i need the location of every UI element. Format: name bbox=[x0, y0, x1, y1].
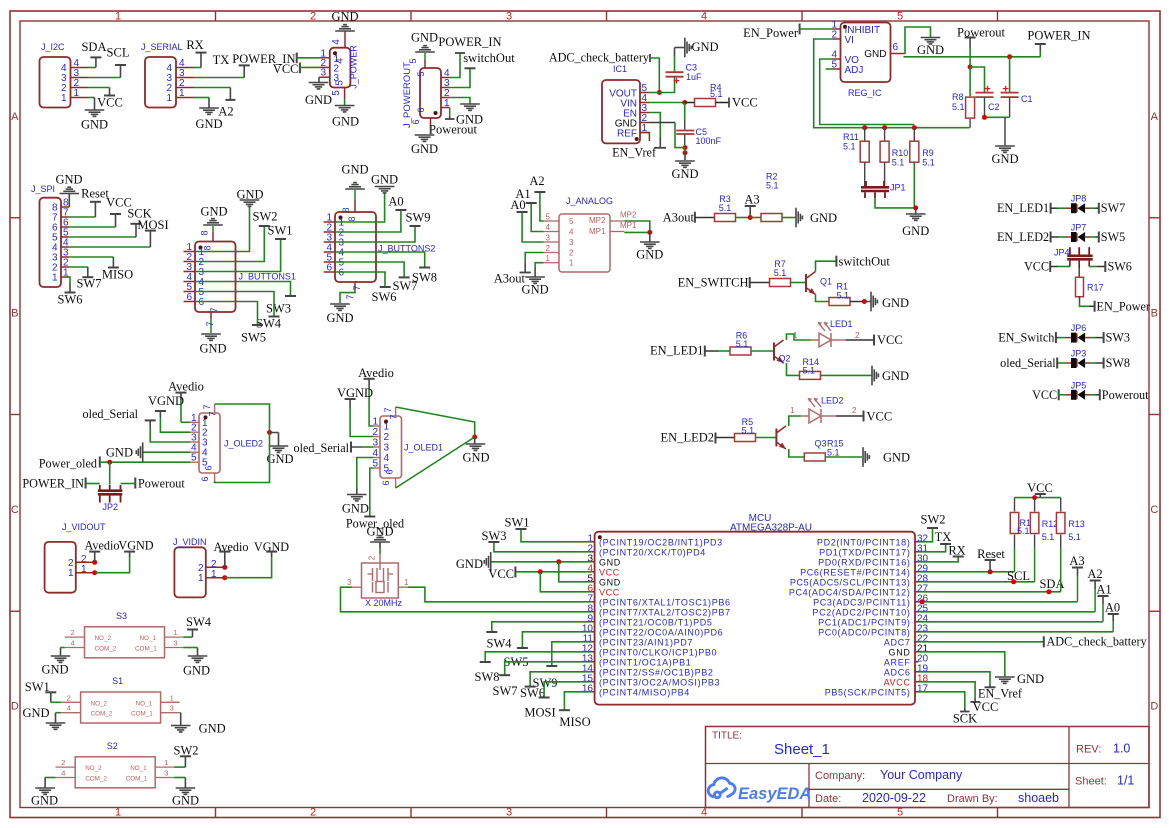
net label SW5 at MCU pin10 bbox=[522, 632, 591, 648]
svg-text:B: B bbox=[1151, 308, 1158, 320]
svg-text:POWER_IN: POWER_IN bbox=[22, 477, 84, 491]
svg-text:SW4: SW4 bbox=[487, 637, 513, 651]
LED1 bbox=[819, 333, 831, 347]
svg-text:VCC: VCC bbox=[599, 568, 620, 578]
wire Q1 collector to switchOut bbox=[816, 261, 837, 271]
net label A1 at MCU pin24 bbox=[919, 621, 1104, 623]
svg-text:PC3(ADC3/PCINT11): PC3(ADC3/PCINT11) bbox=[813, 598, 910, 608]
svg-text:ADC_check_battery: ADC_check_battery bbox=[1047, 635, 1148, 649]
svg-text:1: 1 bbox=[198, 573, 204, 584]
svg-text:A2: A2 bbox=[529, 174, 544, 188]
MCU ATMEGA328P-AU bbox=[595, 532, 915, 705]
svg-text:Powerout: Powerout bbox=[429, 123, 477, 137]
wire REG_IC pin6 up to GND bbox=[904, 27, 931, 54]
svg-text:6: 6 bbox=[385, 469, 395, 474]
svg-text:1: 1 bbox=[793, 331, 798, 340]
ground below J_BUTTONS2 bbox=[354, 282, 356, 290]
jumper JP2 bbox=[109, 462, 111, 484]
net label RX at MCU pin30 bbox=[919, 557, 959, 562]
svg-text:1: 1 bbox=[179, 88, 185, 99]
net label SW3 at MCU pin2 bbox=[494, 542, 591, 552]
svg-text:ADC_check_battery: ADC_check_battery bbox=[549, 51, 650, 65]
wire Q2 collector to LED1 bbox=[787, 334, 812, 340]
svg-text:7: 7 bbox=[345, 294, 355, 299]
wire EN to EN_Vref flag bbox=[649, 113, 660, 138]
net label TX at MCU pin31 bbox=[919, 544, 946, 552]
net label EN_Vref at MCU pin19 bbox=[919, 672, 991, 684]
svg-text:R11: R11 bbox=[843, 132, 859, 142]
ground below JP1 bbox=[915, 208, 917, 214]
net label MISO at J_SPI pin3 bbox=[69, 256, 113, 258]
wire JP1 to gnd bbox=[875, 198, 916, 208]
net label SW6 at MCU pin14 bbox=[530, 672, 591, 687]
svg-text:5.1: 5.1 bbox=[922, 158, 935, 168]
ground at S1 pin3 bbox=[179, 712, 182, 714]
svg-text:switchOut: switchOut bbox=[463, 51, 515, 65]
svg-text:5: 5 bbox=[335, 80, 346, 86]
net label A2 into J_ANALOG pin5 bbox=[540, 192, 544, 221]
net label SCK at MCU pin17 bbox=[919, 692, 965, 708]
svg-text:6: 6 bbox=[411, 119, 421, 124]
gnd flag above J_BUTTONS1 top pin bbox=[212, 232, 214, 242]
svg-text:J_OLED2: J_OLED2 bbox=[224, 439, 263, 449]
svg-text:7: 7 bbox=[383, 407, 393, 412]
svg-text:2: 2 bbox=[198, 563, 204, 574]
ground at J_I2C pin1 bbox=[88, 97, 95, 99]
svg-text:EN_Vref: EN_Vref bbox=[978, 687, 1023, 701]
svg-text:VCC: VCC bbox=[867, 410, 893, 424]
svg-text:7: 7 bbox=[352, 285, 362, 290]
svg-text:JP6: JP6 bbox=[1071, 323, 1087, 333]
wire MCU pin29 to R16 with Reset label bbox=[919, 571, 1015, 573]
svg-text:JP7: JP7 bbox=[1071, 223, 1087, 233]
svg-text:JP4: JP4 bbox=[1054, 248, 1070, 258]
svg-text:GND: GND bbox=[31, 794, 58, 808]
svg-text:POWER_IN: POWER_IN bbox=[1027, 29, 1090, 43]
svg-text:5.1: 5.1 bbox=[710, 89, 723, 99]
svg-text:PB5(SCK/PCINT5): PB5(SCK/PCINT5) bbox=[825, 688, 911, 698]
svg-text:GND: GND bbox=[991, 152, 1018, 166]
wire Q1 emitter to R1 bbox=[816, 295, 830, 302]
svg-text:VCC: VCC bbox=[877, 333, 903, 347]
svg-text:A: A bbox=[1151, 111, 1159, 123]
svg-text:3: 3 bbox=[506, 11, 512, 23]
wire Q3 collector to LED2 bbox=[789, 416, 801, 426]
svg-text:GND: GND bbox=[106, 446, 133, 460]
wire IC1 GND pin to C5 junction bbox=[649, 122, 675, 124]
svg-text:Q2: Q2 bbox=[779, 354, 791, 364]
ground at S2 pin3 bbox=[174, 777, 185, 779]
svg-text:PC2(ADC2/PCINT10): PC2(ADC2/PCINT10) bbox=[812, 608, 910, 618]
junction below C2 and gnd bbox=[985, 116, 1010, 118]
ground at J_OLED1 triangle bbox=[474, 437, 476, 444]
svg-text:GND: GND bbox=[55, 173, 82, 187]
resistor R3 5.1 bbox=[715, 214, 736, 222]
net label SW7 at MCU pin13 bbox=[505, 662, 592, 675]
svg-text:JP1: JP1 bbox=[890, 183, 906, 193]
resistor R1 5.1 bbox=[829, 298, 850, 306]
svg-text:1: 1 bbox=[546, 254, 551, 263]
svg-text:5.1: 5.1 bbox=[827, 448, 840, 458]
svg-text:REG_IC: REG_IC bbox=[848, 88, 882, 98]
svg-text:4: 4 bbox=[701, 807, 707, 819]
svg-text:EN_LED2: EN_LED2 bbox=[661, 431, 714, 445]
svg-text:C3: C3 bbox=[686, 63, 698, 73]
svg-text:GND: GND bbox=[371, 173, 398, 187]
ground at S1 pin4 bbox=[56, 712, 61, 714]
svg-text:5.1: 5.1 bbox=[1068, 532, 1081, 542]
VCC rail wire bbox=[1015, 497, 1061, 499]
net label SW3 from J_BUTTONS1 row4 bbox=[195, 282, 291, 297]
transistor Q1 bbox=[805, 274, 807, 292]
connector J_ANALOG bbox=[559, 214, 610, 272]
svg-text:1.0: 1.0 bbox=[1113, 742, 1130, 756]
svg-text:GND: GND bbox=[81, 118, 108, 132]
feedback wires from REG_IC VO/ADJ bbox=[814, 39, 970, 128]
svg-text:MP2: MP2 bbox=[620, 211, 637, 220]
svg-text:EN_LED2: EN_LED2 bbox=[997, 230, 1049, 244]
svg-text:MP1: MP1 bbox=[620, 221, 637, 230]
capacitor C2 bbox=[970, 67, 984, 93]
svg-text:GND: GND bbox=[456, 557, 483, 571]
svg-text:oled_Serial: oled_Serial bbox=[1000, 356, 1056, 370]
svg-text:8: 8 bbox=[203, 245, 213, 250]
svg-text:Avedio: Avedio bbox=[168, 380, 204, 394]
net label SW7 from J_BUTTONS2 row5 bbox=[335, 262, 404, 277]
svg-text:2: 2 bbox=[855, 331, 860, 340]
title block bbox=[706, 727, 1150, 808]
svg-text:4: 4 bbox=[331, 39, 342, 45]
ground below J_POWER pin5 bbox=[344, 88, 346, 100]
wire J_OLED2 bottom pin loop bbox=[214, 473, 216, 481]
svg-text:SW6: SW6 bbox=[58, 293, 83, 307]
resistor R7 5.1 bbox=[770, 279, 791, 287]
svg-text:PD1(TXD/PCINT17): PD1(TXD/PCINT17) bbox=[819, 548, 910, 558]
svg-text:PD0(RXD/PCINT16): PD0(RXD/PCINT16) bbox=[818, 558, 910, 568]
svg-text:NO_2: NO_2 bbox=[91, 700, 108, 707]
transistor Q3 bbox=[775, 429, 777, 447]
svg-text:MP1: MP1 bbox=[589, 227, 606, 236]
svg-text:SW4: SW4 bbox=[256, 317, 282, 331]
svg-text:GND: GND bbox=[889, 648, 911, 658]
svg-text:5: 5 bbox=[408, 58, 418, 63]
net label A1 into J_ANALOG pin4 bbox=[531, 203, 543, 232]
svg-text:GND: GND bbox=[883, 451, 910, 465]
svg-text:1: 1 bbox=[174, 628, 178, 637]
svg-text:SW9: SW9 bbox=[406, 211, 431, 225]
svg-text:16: 16 bbox=[582, 683, 594, 694]
svg-text:5: 5 bbox=[416, 71, 426, 76]
svg-text:PC5(ADC5/SCL/PCINT13): PC5(ADC5/SCL/PCINT13) bbox=[790, 578, 911, 588]
svg-text:VCC: VCC bbox=[599, 588, 620, 598]
svg-text:GND: GND bbox=[411, 142, 438, 156]
resistor R2 5.1 bbox=[750, 217, 761, 219]
svg-text:SW6: SW6 bbox=[1108, 260, 1132, 274]
net label SW6 from J_BUTTONS2 row6 bbox=[335, 272, 385, 287]
connector J_I2C bbox=[40, 57, 71, 108]
svg-text:GND: GND bbox=[183, 664, 210, 678]
svg-text:1: 1 bbox=[81, 564, 87, 575]
svg-text:COM_2: COM_2 bbox=[85, 775, 107, 782]
svg-text:VGND: VGND bbox=[337, 386, 373, 400]
svg-text:COM_2: COM_2 bbox=[95, 645, 117, 652]
wire MCU pin28 to R12 with SCL label bbox=[919, 581, 1035, 583]
wire MCU pins 4 and 6 to VCC bbox=[515, 571, 591, 573]
net label SW5 from J_BUTTONS1 row6 bbox=[195, 302, 258, 326]
svg-text:SCL: SCL bbox=[1007, 569, 1030, 583]
net label ADC_check_battery at MCU pin22 bbox=[919, 641, 1044, 643]
svg-text:Date:: Date: bbox=[815, 793, 841, 805]
svg-text:2: 2 bbox=[67, 693, 71, 702]
svg-text:3: 3 bbox=[347, 578, 352, 587]
svg-text:2: 2 bbox=[310, 807, 316, 819]
svg-text:EN_Switch: EN_Switch bbox=[998, 331, 1054, 345]
net label A0 into J_ANALOG pin3 bbox=[522, 212, 543, 242]
svg-text:SW3: SW3 bbox=[482, 529, 507, 543]
svg-text:C1: C1 bbox=[1021, 94, 1033, 104]
svg-text:A2: A2 bbox=[1087, 567, 1102, 581]
svg-text:VGND: VGND bbox=[118, 539, 153, 553]
svg-text:1uF: 1uF bbox=[686, 72, 702, 82]
svg-text:MOSI: MOSI bbox=[137, 218, 168, 232]
connector J_OLED2 bbox=[199, 413, 220, 473]
net label MOSI at J_SPI pin4 bbox=[69, 246, 150, 248]
svg-text:1: 1 bbox=[52, 273, 58, 284]
svg-text:R13: R13 bbox=[1068, 519, 1085, 529]
svg-text:A: A bbox=[11, 111, 19, 123]
resistor R14 5.1 bbox=[800, 371, 821, 379]
svg-text:SW2: SW2 bbox=[174, 744, 199, 758]
net label TX bbox=[194, 77, 245, 79]
svg-text:ADC7: ADC7 bbox=[884, 638, 911, 648]
svg-text:1/1: 1/1 bbox=[1117, 774, 1134, 788]
net label A3 at MCU pin26 bbox=[919, 601, 1078, 603]
svg-text:1: 1 bbox=[164, 758, 168, 767]
svg-text:GND: GND bbox=[599, 578, 621, 588]
wire REG_IC GND rail to POWER_IN bbox=[904, 56, 1041, 58]
svg-text:SW5: SW5 bbox=[1101, 230, 1125, 244]
ground flag above J_POWER pin4 bbox=[344, 31, 346, 48]
net label A2 at MCU pin25 bbox=[919, 611, 1096, 613]
svg-text:VCC: VCC bbox=[732, 96, 758, 110]
svg-text:GND: GND bbox=[882, 296, 909, 310]
svg-text:SW8: SW8 bbox=[475, 670, 500, 684]
svg-text:TX: TX bbox=[213, 53, 230, 67]
svg-text:(PCINT0/CLKO/ICP1)PB0: (PCINT0/CLKO/ICP1)PB0 bbox=[599, 648, 717, 658]
svg-text:(PCINT2/SS#/OC1B)PB2: (PCINT2/SS#/OC1B)PB2 bbox=[599, 668, 714, 678]
ground right of R14 bbox=[821, 374, 873, 376]
svg-text:1: 1 bbox=[115, 807, 121, 819]
svg-text:oled_Serial: oled_Serial bbox=[82, 407, 138, 421]
gnd flag above J_POWEROUT bbox=[424, 60, 426, 68]
svg-text:17: 17 bbox=[917, 683, 929, 694]
svg-text:Your Company: Your Company bbox=[880, 768, 963, 782]
svg-text:6: 6 bbox=[416, 107, 426, 112]
wire VOUT to C3 bbox=[659, 79, 674, 93]
ground at J_POWEROUT pin2 bbox=[450, 98, 470, 105]
svg-text:2: 2 bbox=[384, 432, 390, 443]
svg-text:SW3: SW3 bbox=[266, 302, 291, 316]
junction dot Powerout bbox=[968, 65, 973, 70]
gnd above C3 bbox=[674, 56, 676, 72]
ground right of R2 bbox=[782, 217, 796, 219]
svg-text:PC4(ADC4/SDA/PCINT12): PC4(ADC4/SDA/PCINT12) bbox=[789, 588, 911, 598]
svg-text:1: 1 bbox=[170, 693, 174, 702]
net label SW4 at S3 pin1 bbox=[184, 636, 193, 638]
ground below J_POWEROUT bbox=[430, 118, 432, 126]
net label VCC bbox=[88, 87, 110, 89]
svg-text:NO_2: NO_2 bbox=[85, 765, 102, 772]
svg-text:GND: GND bbox=[172, 794, 199, 808]
svg-text:EasyEDA: EasyEDA bbox=[738, 785, 811, 803]
svg-text:oled_Serial: oled_Serial bbox=[293, 441, 349, 455]
ground at J_ANALOG pin1 bbox=[535, 263, 543, 268]
jumper JP1 bbox=[864, 162, 866, 186]
svg-text:MISO: MISO bbox=[559, 715, 590, 729]
svg-text:EN_Vref: EN_Vref bbox=[612, 146, 657, 160]
svg-text:GND: GND bbox=[341, 163, 368, 177]
wire crystal left to MCU pin8 bbox=[352, 586, 362, 588]
connector J_POWER bbox=[330, 48, 351, 88]
svg-text:VI: VI bbox=[845, 35, 854, 46]
net label SW1 at S1 pin2 bbox=[51, 701, 61, 703]
ground right of R15 bbox=[826, 456, 863, 458]
svg-text:TX: TX bbox=[935, 530, 952, 544]
svg-text:R10: R10 bbox=[892, 148, 909, 158]
ground at J_POWER pin3 bbox=[319, 76, 320, 78]
svg-text:GND: GND bbox=[636, 248, 663, 262]
svg-text:GND: GND bbox=[342, 502, 369, 516]
svg-text:VCC: VCC bbox=[1032, 388, 1057, 402]
svg-text:2: 2 bbox=[61, 758, 65, 767]
svg-text:NO_1: NO_1 bbox=[140, 635, 157, 642]
svg-text:SW6: SW6 bbox=[372, 290, 397, 304]
svg-text:PC6(RESET#/PCINT14): PC6(RESET#/PCINT14) bbox=[800, 568, 910, 578]
svg-text:AVCC: AVCC bbox=[884, 678, 911, 688]
net label SW1 at MCU pin1 bbox=[521, 529, 591, 542]
svg-text:Reset: Reset bbox=[977, 547, 1005, 561]
switch S3 bbox=[85, 627, 165, 658]
svg-text:Powerout: Powerout bbox=[1102, 388, 1149, 402]
svg-text:GND: GND bbox=[366, 525, 393, 539]
svg-text:3: 3 bbox=[320, 68, 326, 79]
svg-text:5.1: 5.1 bbox=[1017, 526, 1030, 536]
svg-text:6: 6 bbox=[200, 476, 210, 481]
svg-text:Sheet:: Sheet: bbox=[1075, 776, 1107, 788]
svg-text:A3out: A3out bbox=[663, 211, 695, 225]
svg-text:5: 5 bbox=[191, 453, 197, 464]
ground below J_BUTTONS1 bbox=[210, 312, 212, 319]
resistor R6 5.1 bbox=[730, 347, 751, 355]
svg-text:Powerout: Powerout bbox=[957, 26, 1005, 40]
connector J_POWEROUT bbox=[420, 68, 441, 118]
wire crystal right to MCU pin7 bbox=[398, 586, 408, 588]
svg-text:J_ANALOG: J_ANALOG bbox=[566, 196, 613, 206]
svg-text:6: 6 bbox=[326, 263, 332, 274]
svg-text:8: 8 bbox=[341, 207, 351, 212]
svg-text:5.1: 5.1 bbox=[892, 158, 905, 168]
svg-text:GND: GND bbox=[692, 40, 719, 54]
svg-text:GND: GND bbox=[331, 10, 358, 24]
svg-text:GND: GND bbox=[199, 342, 226, 356]
svg-text:4: 4 bbox=[67, 704, 71, 713]
net label SW8 from J_BUTTONS2 row4 bbox=[335, 252, 425, 268]
svg-text:AREF: AREF bbox=[884, 658, 911, 668]
svg-text:SDA: SDA bbox=[81, 40, 106, 54]
connector J_VIDIN bbox=[174, 547, 205, 597]
svg-text:2: 2 bbox=[81, 554, 87, 565]
svg-text:VCC: VCC bbox=[273, 62, 299, 76]
svg-text:5.1: 5.1 bbox=[742, 426, 755, 436]
svg-text:GND: GND bbox=[882, 369, 909, 383]
svg-text:GND: GND bbox=[917, 43, 944, 57]
svg-text:6: 6 bbox=[204, 465, 214, 470]
svg-text:shoaeb: shoaeb bbox=[1018, 791, 1059, 805]
svg-text:VCC: VCC bbox=[97, 96, 123, 110]
svg-text:NO_2: NO_2 bbox=[95, 635, 112, 642]
net label VCC right of LED1 bbox=[846, 339, 874, 341]
svg-text:(PCINT23/AIN1)PD7: (PCINT23/AIN1)PD7 bbox=[599, 638, 693, 648]
net label MISO at MCU pin16 bbox=[564, 692, 591, 710]
svg-text:JP2: JP2 bbox=[103, 502, 119, 512]
wire R3 to A3 junction bbox=[736, 217, 751, 219]
svg-text:5.1: 5.1 bbox=[803, 366, 816, 376]
svg-text:7: 7 bbox=[205, 321, 215, 326]
svg-text:1: 1 bbox=[444, 98, 450, 109]
capacitor C1 bbox=[1009, 57, 1011, 93]
svg-text:Powerout: Powerout bbox=[138, 477, 185, 491]
ground left of J_OLED2 pin4 bbox=[143, 451, 190, 453]
svg-text:GND: GND bbox=[23, 706, 50, 720]
resistor R15 5.1 bbox=[804, 453, 825, 461]
svg-text:5.1: 5.1 bbox=[774, 268, 787, 278]
svg-text:SW1: SW1 bbox=[505, 516, 530, 530]
svg-text:B: B bbox=[11, 308, 18, 320]
svg-text:Avedio: Avedio bbox=[358, 366, 394, 380]
svg-text:2: 2 bbox=[211, 559, 217, 570]
svg-text:SW7: SW7 bbox=[77, 277, 102, 291]
svg-text:(PCINT22/OC0A/AIN0)PD6: (PCINT22/OC0A/AIN0)PD6 bbox=[599, 628, 723, 638]
svg-text:GND: GND bbox=[902, 224, 929, 238]
net label SW2 at MCU pin32 bbox=[919, 528, 933, 542]
connector J_SERIAL bbox=[145, 57, 176, 108]
svg-text:GND: GND bbox=[266, 452, 293, 466]
svg-text:J_I2C: J_I2C bbox=[41, 42, 65, 52]
svg-text:EN_LED1: EN_LED1 bbox=[997, 201, 1049, 215]
svg-text:SW3: SW3 bbox=[1106, 331, 1130, 345]
svg-text:(PCINT20/XCK/T0)PD4: (PCINT20/XCK/T0)PD4 bbox=[599, 548, 706, 558]
svg-text:5.1: 5.1 bbox=[719, 203, 732, 213]
svg-text:R8: R8 bbox=[952, 92, 964, 102]
svg-text:COM_1: COM_1 bbox=[126, 775, 148, 782]
svg-text:(PCINT19/OC2B/INT1)PD3: (PCINT19/OC2B/INT1)PD3 bbox=[599, 538, 723, 548]
connector J_SPI bbox=[40, 198, 62, 287]
svg-text:8: 8 bbox=[347, 216, 357, 221]
svg-text:100nF: 100nF bbox=[696, 136, 722, 146]
svg-text:LED2: LED2 bbox=[821, 396, 844, 406]
svg-text:3: 3 bbox=[170, 704, 174, 713]
svg-text:Sheet_1: Sheet_1 bbox=[774, 741, 830, 758]
wire Q2 emitter to R14 bbox=[787, 363, 800, 375]
svg-text:GND: GND bbox=[195, 117, 222, 131]
svg-text:SW5: SW5 bbox=[241, 331, 266, 345]
svg-text:SCK: SCK bbox=[953, 712, 977, 726]
svg-text:MISO: MISO bbox=[102, 268, 133, 282]
svg-text:5.1: 5.1 bbox=[736, 339, 749, 349]
svg-text:1: 1 bbox=[166, 93, 172, 104]
svg-text:1: 1 bbox=[404, 578, 409, 587]
svg-text:3: 3 bbox=[174, 639, 178, 648]
